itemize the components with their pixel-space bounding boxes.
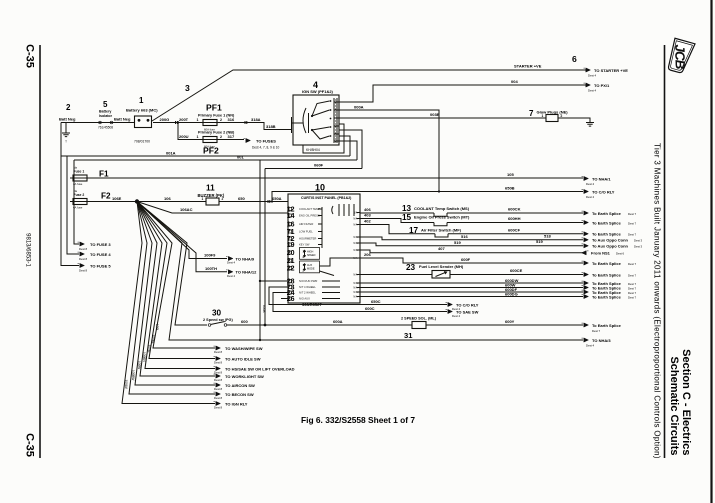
destination arrow TO WORKLIGHT SW (214, 374, 221, 378)
destination arrow TO WASH/WIPE SW (214, 346, 221, 350)
svg-text:TO BECON SW: TO BECON SW (225, 392, 254, 397)
svg-text:HOURMETER: HOURMETER (299, 237, 316, 241)
destination arrow TO HS/SAE SW OR LIFT OVERLOAD (214, 366, 221, 370)
svg-text:Engine Oil Press Switch (MT): Engine Oil Press Switch (MT) (414, 214, 470, 219)
svg-text:60A fuse: 60A fuse (204, 144, 215, 148)
ignition switch rotor (308, 113, 310, 133)
destination arrow TO FUSES (244, 138, 251, 142)
wire 004 to PX/1 (339, 85, 586, 102)
two speed solenoid L31 (ML) (412, 322, 426, 329)
wire wrap 2 to 001 (339, 141, 357, 160)
svg-text:004: 004 (511, 79, 518, 84)
panel internal contact bars (338, 204, 340, 216)
wire 000A ignition accessory (339, 110, 439, 192)
wire 109W to to aircon sw (135, 202, 215, 386)
wire 519 aux oppo (360, 243, 583, 246)
wire 318A 318B to ignition switch (220, 123, 291, 130)
svg-text:TO AIRCON SW: TO AIRCON SW (225, 383, 255, 388)
destination arrow TO FUSE 4 (78, 252, 85, 256)
svg-text:SPEED: SPEED (307, 254, 316, 257)
svg-text:Dest 7: Dest 7 (628, 286, 637, 290)
fuse F1 (70, 175, 90, 181)
svg-text:650A: 650A (272, 196, 282, 201)
svg-text:HIGH: HIGH (307, 251, 313, 254)
connector marks (176, 121, 178, 124)
battery isolator symbol (99, 121, 102, 124)
svg-text:Dest 3: Dest 3 (634, 245, 643, 249)
panel inner box aux mode (300, 261, 320, 273)
svg-text:402: 402 (364, 218, 371, 223)
svg-text:23: 23 (406, 263, 416, 272)
svg-text:Dest 7: Dest 7 (592, 329, 601, 333)
svg-text:Dest 8: Dest 8 (79, 257, 88, 261)
destination arrow earth splice 600F (582, 261, 589, 265)
svg-text:600CF: 600CF (508, 228, 521, 233)
svg-text:316: 316 (228, 117, 235, 122)
svg-text:600F: 600F (461, 257, 471, 262)
svg-text:TO WORKLIGHT SW: TO WORKLIGHT SW (225, 374, 264, 379)
svg-text:5: 5 (103, 100, 108, 109)
svg-text:518: 518 (544, 233, 551, 238)
svg-text:105: 105 (507, 172, 514, 177)
svg-text:To Aux Oppo Conn: To Aux Oppo Conn (592, 238, 629, 243)
svg-text:6: 6 (572, 54, 577, 64)
svg-text:2: 2 (561, 114, 563, 118)
right inner rule (664, 45, 666, 458)
wire 109L to to wash/wipe sw (137, 202, 215, 349)
svg-text:2: 2 (222, 197, 224, 201)
destination arrow earth splice 600CF (582, 232, 589, 236)
svg-text:206: 206 (364, 252, 371, 257)
svg-text:13: 13 (402, 204, 412, 213)
svg-text:Fig 6. 332/S2558 Sheet 1 of 7: Fig 6. 332/S2558 Sheet 1 of 7 (301, 415, 415, 425)
svg-text:2 SPEED SOL. (ML): 2 SPEED SOL. (ML) (401, 317, 437, 321)
destination arrow earth splice 600DG (582, 294, 589, 298)
ignition switch key arc (303, 108, 306, 133)
svg-text:TO NHA/9: TO NHA/9 (236, 256, 255, 261)
svg-text:TO HS/SAE SW OR LIFT OVERLOAD: TO HS/SAE SW OR LIFT OVERLOAD (225, 366, 295, 371)
svg-text:4A fuse: 4A fuse (73, 182, 83, 186)
svg-text:CURTIS INST PANEL (PB1&2): CURTIS INST PANEL (PB1&2) (301, 196, 352, 200)
destination arrow TO C/O RLY (582, 189, 589, 193)
svg-text:COOLANT TEMP: COOLANT TEMP (299, 207, 320, 211)
svg-text:003E: 003E (430, 112, 440, 117)
svg-text:109AV: 109AV (124, 380, 128, 390)
svg-text:To Earth Splice: To Earth Splice (592, 261, 622, 266)
svg-text:Dest 4: Dest 4 (452, 314, 461, 318)
svg-text:600A: 600A (333, 319, 343, 324)
svg-text:TO WASH/WIPE SW: TO WASH/WIPE SW (225, 346, 263, 351)
svg-text:Air Filter Switch (MF): Air Filter Switch (MF) (421, 228, 462, 233)
svg-text:To Earth Splice: To Earth Splice (592, 211, 622, 216)
svg-text:Dest 7: Dest 7 (628, 221, 637, 225)
svg-text:318B: 318B (266, 124, 276, 129)
svg-text:N/T 2 WHEEL: N/T 2 WHEEL (299, 291, 316, 295)
wire 600CE fuel sender (360, 274, 432, 276)
svg-text:T: T (65, 140, 67, 144)
wire left rail x61 battery feed (61, 123, 79, 266)
destination arrow earth splice 600HH (582, 220, 589, 224)
svg-text:TO NHA/1: TO NHA/1 (592, 176, 611, 181)
svg-text:516: 516 (461, 234, 468, 239)
svg-text:TO AUTO IDLE SW: TO AUTO IDLE SW (225, 356, 261, 361)
wire 109BL to to auto idle sw (137, 202, 215, 359)
svg-text:STARTER +VE: STARTER +VE (514, 64, 542, 69)
svg-text:600Y: 600Y (505, 319, 515, 324)
svg-text:106E: 106E (112, 196, 122, 201)
svg-text:600C: 600C (365, 306, 375, 311)
svg-text:1: 1 (202, 197, 204, 201)
svg-text:1: 1 (197, 118, 199, 122)
wire 600 (227, 324, 412, 326)
svg-text:Dest 4: Dest 4 (227, 261, 236, 265)
svg-text:To Earth Splice: To Earth Splice (592, 323, 622, 328)
svg-text:Fuel Level Sender (MH): Fuel Level Sender (MH) (419, 264, 464, 269)
wire 3 battery to starter rail (152, 70, 586, 121)
wire 406 coolant temp (360, 212, 434, 214)
fuse F2 (70, 199, 90, 205)
destination arrow earth splice 600DW (582, 281, 589, 285)
ignition switch blade 4 (312, 130, 330, 139)
svg-text:106: 106 (164, 196, 171, 201)
svg-text:TO IGN RLY: TO IGN RLY (225, 401, 248, 406)
svg-text:1: 1 (542, 114, 544, 118)
svg-text:AUX: AUX (307, 264, 312, 267)
svg-text:TO NHA/3: TO NHA/3 (592, 338, 611, 343)
svg-text:106AC: 106AC (180, 207, 193, 212)
panel pin 26 stub (281, 298, 288, 300)
svg-text:9813/6853-1: 9813/6853-1 (25, 233, 31, 267)
ignition switch input pin bar (291, 117, 293, 133)
svg-text:060F: 060F (314, 163, 324, 168)
svg-text:109L: 109L (155, 324, 159, 331)
svg-text:Dest 8: Dest 8 (79, 247, 88, 251)
svg-text:JCB: JCB (672, 44, 687, 70)
JCB logo (665, 38, 696, 75)
svg-text:Dest 8: Dest 8 (214, 387, 223, 391)
Curtis instrument panel U10 (PB1&2) (288, 194, 360, 303)
svg-text:LOW FUEL: LOW FUEL (299, 230, 313, 234)
svg-text:403: 403 (364, 212, 371, 217)
svg-text:30: 30 (212, 309, 222, 318)
svg-text:Dest 8: Dest 8 (214, 396, 223, 400)
svg-text:TO FUSE 5: TO FUSE 5 (90, 263, 111, 268)
wire 650C to C/O relay (269, 287, 447, 305)
destination arrow TO FUSE 3 (78, 242, 85, 246)
svg-text:15: 15 (402, 213, 412, 222)
right page edge rule (710, 0, 712, 503)
destination arrow TO IGN RLY (214, 401, 221, 405)
destination arrow earth splice 600CK (582, 211, 589, 215)
destination arrow aux oppo conn 516 (582, 238, 589, 242)
svg-text:001A: 001A (166, 150, 176, 155)
svg-text:Dest 7: Dest 7 (628, 291, 637, 295)
svg-text:To Aux Oppo Conn: To Aux Oppo Conn (592, 244, 629, 249)
wire 100F9 to NHA/9 (137, 202, 227, 259)
svg-text:001: 001 (237, 154, 244, 159)
svg-text:10: 10 (315, 183, 325, 193)
left margin rule (39, 45, 41, 458)
svg-text:1: 1 (197, 135, 199, 139)
node x265 junction (264, 324, 267, 327)
buzzer U11 (PK) (206, 198, 219, 205)
svg-text:600CK: 600CK (508, 207, 521, 212)
node 000A joins 650B (438, 190, 440, 192)
wire 516 aux oppo (360, 237, 583, 240)
wire left rail x74 (74, 160, 79, 244)
svg-text:TO C/O RLY: TO C/O RLY (592, 189, 615, 194)
destination arrow TO AUTO IDLE SW (214, 356, 221, 360)
svg-text:Fuse 2: Fuse 2 (74, 193, 85, 197)
panel internal bus (321, 207, 323, 248)
wire 001 (74, 159, 357, 161)
svg-text:Battery: Battery (99, 110, 111, 114)
destination arrow TO NHA/12 (226, 270, 233, 274)
wire 001A (61, 155, 350, 157)
svg-text:Dest 7: Dest 7 (628, 273, 637, 277)
destination arrow TO SAE SW (446, 309, 453, 313)
svg-text:Dest 7: Dest 7 (628, 262, 637, 266)
svg-text:Battery 663 (MC): Battery 663 (MC) (126, 107, 158, 112)
battery B1 663 (MC) (135, 116, 152, 128)
panel inner wire to pin 21 output (320, 258, 361, 266)
destination arrow TO PX/1 (584, 83, 591, 87)
wire 105 to NHA/1 (90, 177, 583, 179)
svg-text:C-35: C-35 (24, 44, 36, 68)
ignition switch blade 2 (312, 110, 330, 116)
svg-text:Dest 7: Dest 7 (628, 282, 637, 286)
source arrow From NS1 (582, 251, 589, 255)
svg-text:TO PX/1: TO PX/1 (594, 83, 610, 88)
glow plugs R7 (NE) (546, 115, 558, 122)
svg-text:Dest 4: Dest 4 (586, 195, 595, 199)
svg-text:761/45508: 761/45508 (98, 126, 113, 130)
svg-text:600HH: 600HH (508, 216, 521, 221)
wire 402 air filter (360, 225, 435, 234)
wire 407 from NS1 (360, 250, 583, 253)
wire 109BN to to worklight sw (137, 202, 215, 377)
wire 650 buzzer to panel (219, 201, 288, 203)
wire left rail x67 (67, 156, 79, 254)
panel inner diagonal (320, 271, 335, 276)
svg-text:Dest 3: Dest 3 (634, 239, 643, 243)
svg-text:708/01700: 708/01700 (134, 139, 150, 143)
wire 600C to SAE switch (273, 293, 447, 312)
svg-text:KH/8H04: KH/8H04 (306, 148, 320, 152)
svg-text:000A: 000A (354, 104, 364, 109)
svg-text:N/O RUN PWR: N/O RUN PWR (299, 279, 317, 283)
svg-text:N/T 4 WHEEL: N/T 4 WHEEL (299, 285, 316, 289)
wire glow plugs to ground (558, 118, 590, 122)
wire wrap loop into switch base (303, 124, 344, 153)
svg-text:317: 317 (228, 134, 235, 139)
svg-text:TO FUSE 3: TO FUSE 3 (90, 242, 111, 247)
wire 100TH to NHA/12 (137, 202, 227, 272)
svg-text:17: 17 (409, 226, 419, 235)
svg-text:Batt Neg: Batt Neg (114, 116, 131, 121)
svg-text:Dest 4: Dest 4 (586, 182, 595, 186)
svg-text:Dest 8: Dest 8 (214, 405, 223, 409)
svg-text:11: 11 (206, 183, 215, 192)
svg-text:407: 407 (438, 246, 445, 251)
svg-text:Dest 7: Dest 7 (628, 295, 637, 299)
svg-text:PF1: PF1 (206, 103, 222, 113)
svg-text:F2: F2 (101, 191, 111, 200)
destination arrow TO NHA/9 (226, 256, 233, 260)
wire 403 oil pressure (360, 219, 434, 223)
destination arrow earth splice 600CE (582, 272, 589, 276)
svg-text:Dest 7: Dest 7 (628, 233, 637, 237)
svg-text:N/O AUX: N/O AUX (299, 297, 310, 301)
wire 650B to C/O relay (272, 192, 583, 202)
destination arrow TO STARTER +VE (584, 68, 591, 72)
fuel level sender R23 (MH) (432, 271, 450, 279)
svg-text:1: 1 (139, 96, 144, 105)
svg-text:600DG: 600DG (505, 291, 518, 296)
wire 060F (265, 168, 362, 170)
svg-text:ENG OIL PRESS: ENG OIL PRESS (299, 214, 320, 218)
wire wrap to 060F (339, 130, 362, 169)
svg-text:IGN SW (PF1&2): IGN SW (PF1&2) (302, 89, 334, 94)
svg-text:650C: 650C (371, 299, 381, 304)
destination arrow aux oppo conn 519 (582, 244, 589, 248)
wire 600DF (360, 291, 583, 293)
svg-text:Schematic Circuits: Schematic Circuits (668, 356, 680, 455)
svg-text:Dest 4: Dest 4 (227, 274, 236, 278)
svg-text:318A: 318A (251, 117, 261, 122)
connector 650A into panel (268, 200, 270, 203)
destination arrow TO NHA/3 (582, 338, 589, 342)
destination arrow TO BECON SW (214, 392, 221, 396)
wire 600W (360, 287, 583, 289)
svg-text:C-35: C-35 (24, 433, 36, 457)
svg-text:TO FUSE 4: TO FUSE 4 (90, 252, 111, 257)
destination arrow earth splice 600DF (582, 290, 589, 294)
svg-text:From NS1: From NS1 (591, 251, 611, 256)
svg-text:Tier 3 Machines Built January: Tier 3 Machines Built January 2011 onwar… (653, 143, 662, 459)
ignition switch contacts (311, 115, 313, 117)
svg-text:KEY SW: KEY SW (299, 243, 310, 247)
ignition switch U4 IGN SW (PF1&2) (293, 95, 339, 145)
primary fuse PF1 (200, 120, 220, 126)
wire 109BW to to becon sw (129, 202, 215, 395)
svg-text:100TH: 100TH (205, 266, 217, 271)
svg-text:Dest 4: Dest 4 (588, 89, 597, 93)
destination arrow TO FUSE 5 (78, 263, 85, 267)
node PF branch (177, 121, 179, 123)
svg-text:Batt Neg: Batt Neg (59, 116, 76, 121)
svg-text:Dest 8: Dest 8 (214, 378, 223, 382)
svg-text:2 Speed sw (PG): 2 Speed sw (PG) (203, 318, 233, 322)
destination arrow TO AIRCON SW (214, 383, 221, 387)
svg-text:AIR FILTER: AIR FILTER (299, 222, 313, 226)
panel inner box speed select (300, 248, 320, 260)
svg-text:Dest 7: Dest 7 (628, 212, 637, 216)
svg-text:Dest 8: Dest 8 (214, 370, 223, 374)
svg-text:406: 406 (364, 207, 371, 212)
ground symbol glow plugs (586, 123, 594, 127)
svg-text:To Earth Splice: To Earth Splice (592, 272, 622, 277)
svg-text:200U: 200U (179, 134, 189, 139)
wire 109P to NHA/3 (137, 202, 583, 341)
svg-text:To Earth Splice: To Earth Splice (592, 294, 622, 299)
svg-text:600CE: 600CE (510, 268, 523, 273)
svg-text:2: 2 (220, 118, 222, 122)
destination arrow earth splice 600W (582, 285, 589, 289)
svg-text:Dest 4: Dest 4 (586, 344, 595, 348)
svg-text:COOLANT Temp Switch (MS): COOLANT Temp Switch (MS) (414, 206, 470, 211)
svg-text:31: 31 (404, 331, 413, 340)
svg-text:TO STARTER +VE: TO STARTER +VE (594, 68, 628, 73)
svg-text:100F9: 100F9 (204, 253, 216, 258)
svg-text:Isolator: Isolator (99, 114, 113, 118)
wire 600Y (426, 324, 583, 326)
svg-text:3: 3 (185, 83, 190, 93)
ignition switch pin column (334, 101, 339, 103)
svg-text:4A fuse: 4A fuse (73, 205, 83, 209)
ignition switch blade 1 (312, 101, 330, 116)
svg-text:200T: 200T (179, 117, 189, 122)
svg-text:TO NHA/12: TO NHA/12 (236, 270, 258, 275)
wire branch to PF2 (178, 123, 203, 140)
wire battery positive 200G (153, 122, 203, 124)
wire 106E (90, 201, 206, 203)
ground symbol battery negative (65, 123, 67, 134)
svg-text:109BW: 109BW (131, 370, 135, 380)
svg-text:TO FUSES: TO FUSES (256, 138, 276, 143)
svg-text:Dest 8: Dest 8 (214, 360, 223, 364)
svg-text:Dest 4, 7, 8, 9 & 10: Dest 4, 7, 8, 9 & 10 (252, 146, 280, 150)
wire bus x260 to panel pin 28 (259, 160, 261, 340)
destination arrow TO C/O RLY 650C (446, 302, 453, 306)
svg-text:600B: 600B (262, 305, 266, 312)
svg-text:519: 519 (454, 240, 461, 245)
svg-text:Section C - Electrics: Section C - Electrics (680, 349, 692, 455)
svg-text:To Earth Splice: To Earth Splice (592, 232, 622, 237)
node fan hub (135, 199, 139, 203)
wire 109M to to hs/sae sw or lift overload (137, 202, 215, 369)
svg-text:650B: 650B (505, 186, 515, 191)
wire PF2 output to fuses (220, 139, 244, 141)
destination arrow TO NHA/1 (582, 176, 589, 180)
wire bus x265 down to two speed rail (264, 169, 266, 326)
svg-text:Dest 8: Dest 8 (214, 350, 223, 354)
wire 600DW (360, 282, 583, 284)
svg-text:600: 600 (241, 319, 248, 324)
wire 003E to glow plugs (339, 117, 546, 119)
wire 600DG (360, 296, 583, 298)
svg-text:Fuse 1: Fuse 1 (74, 170, 85, 174)
svg-text:Dest 4: Dest 4 (588, 74, 597, 78)
wire wrap 1 to 001A (339, 136, 350, 156)
svg-text:200G: 200G (160, 117, 170, 122)
wire 109AV to to ign rly (122, 202, 215, 404)
svg-text:2: 2 (66, 103, 71, 112)
primary fuse PF2 (200, 137, 220, 143)
svg-text:650: 650 (238, 196, 245, 201)
svg-text:2: 2 (220, 135, 222, 139)
svg-text:519: 519 (536, 239, 543, 244)
wire 106AC to panel pin 14 (137, 202, 288, 214)
svg-text:F1: F1 (99, 169, 109, 178)
destination arrow To Earth Splice 600Y (582, 323, 589, 327)
svg-text:MODE: MODE (307, 268, 315, 271)
svg-text:7: 7 (529, 109, 534, 118)
svg-text:Dest 8: Dest 8 (79, 268, 88, 272)
wire feed to two speed switch (137, 202, 207, 326)
ignition switch blade 3 (312, 127, 330, 130)
svg-text:Dest 6: Dest 6 (616, 252, 625, 256)
